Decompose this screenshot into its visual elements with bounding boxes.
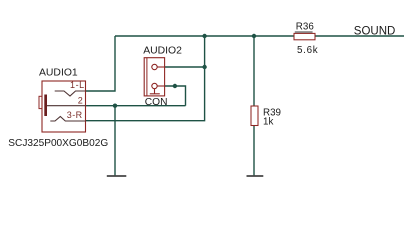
svg-text:5.6k: 5.6k [297,45,318,56]
svg-text:CON: CON [145,97,168,108]
AUDIO1 pin 2 contact [47,105,86,107]
svg-text:AUDIO2: AUDIO2 [143,46,182,57]
connector AUDIO2 body box [144,58,164,96]
resistor R39 body [251,106,258,126]
svg-text:1k: 1k [263,116,273,127]
junction middle vertical with AUDIO2 top pin wire [202,65,206,69]
wire: left vertical drop to AUDIO1 pin 1-L [86,36,116,91]
AUDIO2 pin 1 circle [152,64,157,69]
AUDIO2 pin 1 stub [157,66,164,68]
wire: top net from corner to R36 left lead [115,35,294,37]
wire: AUDIO1 pin 2 horizontal run [86,105,186,107]
svg-text:SOUND: SOUND [354,25,396,37]
AUDIO1 jack shaft bar [44,95,47,117]
wire: AUDIO2 bottom pin loop down to pin2 net [165,86,186,106]
wire: R36 right lead to SOUND [315,35,404,37]
AUDIO2 pin 2 circle [152,83,157,88]
junction on AUDIO2 bottom pin wire [173,84,177,88]
AUDIO2 sleeve T symbol [150,89,160,94]
AUDIO2 pin 2 stub [157,85,164,87]
wire: R39 bottom lead to ground [253,126,255,177]
svg-text:R36: R36 [296,22,315,33]
junction on top net at middle vertical [202,34,206,38]
AUDIO2 inner left line [146,58,148,96]
wire: R39 top lead from top net [253,36,255,106]
junction pin2 net with ground drop [113,104,117,108]
R36 designator underline [295,31,313,33]
svg-text:3-R: 3-R [67,110,83,120]
svg-text:1-L: 1-L [70,80,85,90]
AUDIO1 jack nub [39,96,42,108]
AUDIO1 pin 1-L contact [55,91,86,96]
wire: middle vertical from top net down to 3-R run [86,36,205,121]
svg-text:2: 2 [78,95,83,105]
wire: ground drop from pin 2 junction [114,106,116,176]
AUDIO1 pin 3-R contact [50,117,85,122]
connector AUDIO1 body box [42,81,86,132]
junction on top net at R39 branch [252,34,256,38]
svg-text:SCJ325P00XG0B02G: SCJ325P00XG0B02G [8,138,108,149]
svg-text:AUDIO1: AUDIO1 [39,68,78,79]
ground bar under R39 [247,175,264,177]
wire: AUDIO2 top pin to middle vertical [165,66,205,68]
resistor R36 body [294,33,315,39]
ground bar under AUDIO1 [107,175,127,177]
